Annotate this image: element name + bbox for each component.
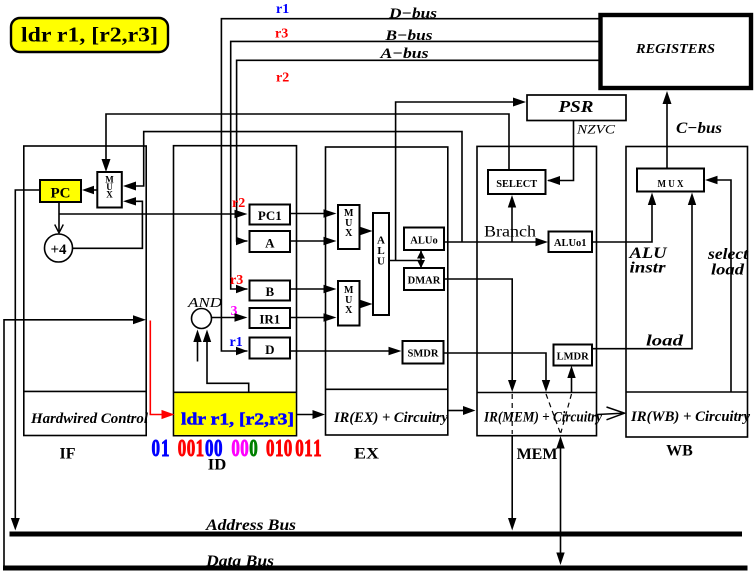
svg-text:A−bus: A−bus (379, 46, 428, 62)
register SMDR (403, 341, 444, 364)
svg-text:instr: instr (630, 260, 667, 277)
wire IR(WB) select to WB MUX (717, 180, 731, 392)
svg-text:U: U (377, 256, 385, 268)
wire branch target to IF MUX (136, 132, 462, 242)
PSR register (527, 95, 626, 121)
wire DMAR to IR(MEM) and address bus (444, 279, 512, 380)
svg-text:Data Bus: Data Bus (205, 553, 274, 570)
svg-text:0: 0 (187, 436, 196, 462)
svg-text:PC: PC (51, 186, 71, 202)
register B (250, 281, 291, 301)
EX stage box (326, 147, 448, 435)
wire PC to +4 and PC1 (58, 202, 60, 231)
wire PSR to SELECT (548, 121, 574, 181)
svg-text:1: 1 (196, 436, 205, 462)
svg-text:X: X (345, 228, 353, 239)
node binary encoding 01 00100 000 010 011 (152, 436, 322, 462)
alu ALU (373, 213, 389, 315)
wire Branch ALUo to ALUo1 (444, 241, 536, 243)
ID stage box (174, 146, 297, 436)
svg-text:SMDR: SMDR (408, 349, 439, 360)
svg-text:0: 0 (214, 436, 223, 462)
svg-text:1: 1 (161, 436, 170, 462)
svg-text:X: X (345, 305, 353, 316)
arrowhead into D (236, 347, 248, 355)
svg-text:WB: WB (666, 443, 693, 460)
svg-text:0: 0 (266, 436, 275, 462)
svg-text:0: 0 (152, 436, 161, 462)
svg-text:C−bus: C−bus (676, 120, 722, 137)
svg-text:IF: IF (60, 446, 76, 463)
svg-text:load: load (711, 262, 745, 279)
register LMDR (554, 345, 593, 366)
wire LMDR dashed from data path (561, 394, 572, 433)
wire IR(MEM) to IR(WB) open arrow (597, 407, 625, 420)
wire ALU flags to PSR (396, 102, 513, 261)
mux IF MUX (97, 172, 122, 208)
wire branch condition to SELECT (511, 207, 513, 242)
WB stage box (626, 147, 748, 438)
mux EX MUX1 (338, 205, 360, 249)
svg-text:D: D (265, 342, 274, 357)
wire B-bus (231, 41, 599, 289)
svg-text:Address Bus: Address Bus (205, 517, 296, 534)
register A (250, 231, 291, 252)
wire A-bus (237, 60, 599, 241)
adder +4 (45, 234, 73, 262)
wire IR1 to EX MUX2 (290, 317, 324, 319)
wire +4 to IF MUX (73, 201, 143, 248)
register D (250, 338, 291, 359)
svg-text:ALUo1: ALUo1 (554, 238, 587, 249)
wire MUX2 to ALU (360, 303, 362, 305)
IF stage box (24, 146, 146, 436)
svg-text:X: X (106, 190, 113, 200)
svg-text:EX: EX (354, 446, 379, 463)
wire IR(EX) to IR(MEM) (448, 410, 463, 412)
svg-text:IR(EX) + Circuitry: IR(EX) + Circuitry (333, 410, 449, 426)
svg-text:0: 0 (205, 436, 214, 462)
svg-text:B−bus: B−bus (384, 28, 432, 44)
svg-text:0: 0 (178, 436, 187, 462)
wire IR(MEM) to LMDR (571, 378, 573, 393)
svg-text:D−bus: D−bus (388, 6, 437, 22)
wire A to EX MUX1 (290, 240, 324, 242)
wire data bus to IR(MEM) bidirectional (560, 448, 562, 558)
mux WB MUX (637, 169, 704, 192)
wire LMDR to WB MUX (592, 205, 692, 349)
gate AND circle (192, 309, 212, 329)
svg-text:select: select (707, 246, 749, 263)
register ALUo (404, 228, 444, 251)
wire ALUo1 to WB MUX (592, 205, 652, 242)
svg-text:PSR: PSR (557, 97, 593, 116)
svg-text:ldr r1, [r2,r3]: ldr r1, [r2,r3] (21, 23, 158, 47)
register SELECT (488, 170, 546, 194)
wire SMDR dashed to data path (546, 394, 560, 433)
svg-text:IR(WB) + Circuitry: IR(WB) + Circuitry (630, 409, 751, 425)
svg-text:1: 1 (275, 436, 284, 462)
svg-text:load: load (646, 333, 684, 350)
mux EX MUX2 (338, 281, 360, 326)
register PC1 (250, 205, 291, 225)
wire instruction fetch from data bus (4, 320, 133, 566)
svg-text:1: 1 (304, 436, 313, 462)
svg-text:IR(MEM) + Circuitry: IR(MEM) + Circuitry (483, 410, 602, 426)
svg-text:PC1: PC1 (258, 208, 282, 223)
WB IR divider (626, 391, 748, 393)
svg-text:AND: AND (187, 296, 222, 311)
IF hardwired control divider (24, 390, 146, 392)
REGISTERS U10 (601, 15, 752, 88)
svg-text:ALUo: ALUo (410, 236, 437, 247)
svg-text:B: B (265, 284, 274, 299)
wire B to EX MUX2 (290, 288, 324, 290)
register DMAR (404, 268, 444, 290)
wire DMAR to address bus (511, 436, 513, 518)
svg-text:r2: r2 (232, 196, 245, 211)
instruction box "ldr r1, [r2,r3]" (11, 18, 168, 52)
svg-text:r1: r1 (276, 2, 289, 17)
wire PC1 to EX MUX1 (290, 213, 324, 215)
wire fetched instruction to IR (red) (150, 321, 163, 415)
wire DMAR dashed through IR(MEM) (511, 394, 513, 434)
wire PC value to PC1 (59, 213, 235, 215)
wire C-bus (666, 104, 668, 169)
svg-text:0: 0 (240, 436, 249, 462)
svg-text:Branch: Branch (484, 224, 536, 241)
svg-text:1: 1 (313, 436, 322, 462)
PC register (40, 180, 81, 202)
arrowhead into A (236, 237, 248, 245)
wire D-bus (221, 19, 598, 351)
svg-text:ldr r1, [r2,r3]: ldr r1, [r2,r3] (181, 410, 294, 429)
IR instruction register yellow box (174, 393, 295, 435)
arrowhead into B (236, 285, 248, 293)
svg-text:NZVC: NZVC (576, 122, 616, 137)
svg-text:r3: r3 (275, 27, 288, 42)
svg-text:SELECT: SELECT (496, 179, 537, 190)
svg-text:0: 0 (295, 436, 304, 462)
wire AND to IR1 (212, 317, 235, 319)
wire ALU to ALUo and DMAR double arrow (420, 251, 422, 268)
svg-text:0: 0 (249, 436, 258, 462)
svg-text:M U X: M U X (658, 179, 684, 190)
svg-text:IR1: IR1 (259, 312, 280, 327)
wire IR to EX (297, 414, 314, 416)
svg-text:r2: r2 (276, 71, 289, 86)
register IR1 (250, 308, 291, 328)
wire PC to address bus (15, 190, 40, 518)
svg-text:LMDR: LMDR (557, 352, 589, 363)
svg-text:REGISTERS: REGISTERS (635, 42, 715, 57)
register ALUo1 (549, 232, 593, 253)
wire AND input stub (197, 342, 199, 362)
svg-text:0: 0 (231, 436, 240, 462)
MEM IR divider (477, 392, 597, 394)
ID IR divider (174, 391, 297, 393)
wire IR to AND input (207, 342, 249, 392)
svg-text:Hardwired Control: Hardwired Control (30, 411, 148, 427)
wire SMDR to IR(MEM) (444, 353, 547, 380)
svg-text:+4: +4 (50, 242, 67, 258)
address bus (10, 532, 743, 537)
wire MUX1 to ALU (360, 230, 362, 232)
wire ALU output junction (389, 260, 421, 262)
wire D to SMDR (290, 350, 389, 352)
MEM stage box (477, 146, 597, 435)
wire IF MUX to PC (94, 189, 97, 191)
svg-text:DMAR: DMAR (408, 276, 441, 287)
svg-text:0: 0 (284, 436, 293, 462)
svg-text:MEM: MEM (517, 446, 558, 463)
svg-text:A: A (265, 236, 275, 251)
wire SELECT to IF MUX select (106, 114, 509, 170)
EX IR divider (326, 388, 448, 390)
data bus (3, 566, 748, 571)
